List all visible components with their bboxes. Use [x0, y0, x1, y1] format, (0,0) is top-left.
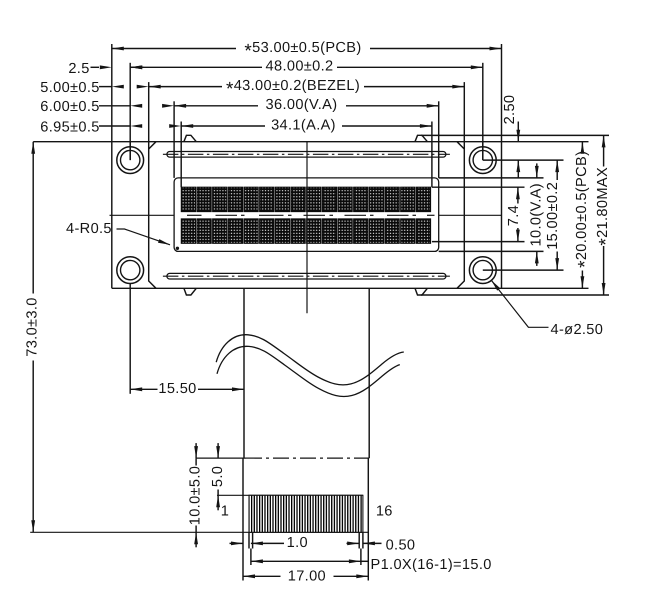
extension line bezel tab top (21.80MAX) — [421, 134, 609, 136]
extension ticks pin 16 edges — [358, 532, 360, 548]
dimension 5.0 arrows — [217, 443, 219, 458]
dimension 15.50 line — [130, 388, 157, 390]
svg-text:6.00±0.5: 6.00±0.5 — [40, 99, 100, 115]
dimension P1.0X(16-1)=15.0 line — [251, 560, 361, 562]
contact fingers hatched area — [249, 495, 363, 532]
dimension 5.00 arrows — [112, 85, 124, 89]
svg-text:5.00±0.5: 5.00±0.5 — [40, 80, 100, 96]
extension line V.A left edge (36.00) — [173, 101, 175, 178]
extension line bezel left edge (43.00) — [148, 82, 150, 149]
dimension 6.00 arrows — [130, 104, 142, 108]
vertical centreline of module — [306, 142, 308, 314]
extension line right hole centre (48.00) — [482, 63, 484, 160]
dimension *53.00 arrows — [112, 47, 124, 51]
dimension *21.80MAX line — [603, 135, 605, 166]
dimension P1.0 arrows — [251, 559, 263, 563]
dimension *43.00±0.2(BEZEL) text — [222, 79, 364, 94]
svg-text:P1.0X(16-1)=15.0: P1.0X(16-1)=15.0 — [371, 557, 492, 573]
flex break squiggle upper curve — [216, 335, 404, 385]
svg-text:15.00±0.2: 15.00±0.2 — [545, 182, 561, 250]
svg-text:10.0±5.0: 10.0±5.0 — [188, 466, 204, 526]
V.A window (display glass opening) — [174, 178, 439, 252]
svg-text:6.95±0.5: 6.95±0.5 — [40, 119, 100, 135]
horizontal centreline of module — [110, 214, 175, 216]
dimension 34.1 arrows — [181, 124, 193, 128]
dimension 17.00 arrows — [243, 574, 255, 578]
dimension 10.0±5.0 line — [195, 458, 197, 465]
svg-text:2.5: 2.5 — [68, 61, 89, 77]
extension line V.A right edge (36.00) — [438, 101, 440, 178]
extension tick pin 16 centre — [360, 549, 362, 566]
svg-text:1.0: 1.0 — [287, 535, 308, 551]
dimension *21.80MAX arrows — [602, 135, 606, 147]
svg-text:4-R0.5: 4-R0.5 — [66, 221, 112, 237]
dot-matrix character cells (16 columns x 2 rows) — [181, 187, 195, 211]
extension line top hole centre right (15.00) — [483, 159, 564, 161]
extension line PCB left edge (53.00) — [111, 44, 113, 142]
svg-text:1: 1 — [221, 504, 229, 520]
bezel tab bottom right — [415, 288, 427, 295]
dimension 34.1(A.A) text — [265, 119, 342, 134]
PCB top edge — [33, 141, 588, 143]
extension line PCB right edge (53.00) — [501, 44, 503, 142]
dimension 2.5 arrows — [100, 65, 112, 69]
R0.5 corner reference dot — [176, 247, 179, 250]
flex fold line solid extension — [196, 457, 246, 459]
bezel outline with chamfered corners — [149, 142, 465, 289]
dimension 7.4 line — [517, 187, 519, 203]
PCB left edge — [111, 142, 113, 289]
dimension 73.0±3.0 arrows — [31, 142, 35, 154]
dimension 48.00 arrows — [130, 65, 142, 69]
flex fold centreline — [246, 457, 369, 459]
extension line V.A top right (10.0) — [439, 177, 544, 179]
dimension *43.00 arrows — [149, 85, 161, 89]
dimension 48.00±0.2 text — [262, 60, 337, 75]
contact area top edge — [217, 494, 363, 496]
dimension 6.95±0.5 line — [99, 125, 130, 127]
dimension 5.00±0.5 line — [99, 86, 112, 88]
leader 4-R0.5 line — [117, 229, 171, 245]
dimension 6.95 arrows — [130, 124, 142, 128]
svg-text:17.00: 17.00 — [288, 568, 326, 584]
dimension 73.0±3.0 line — [32, 142, 34, 294]
dimension *20.00 arrows — [581, 142, 585, 154]
extension line hole centre down (15.50) — [129, 284, 131, 394]
bezel tab top left — [184, 135, 196, 141]
svg-text:7.4: 7.4 — [506, 205, 522, 226]
dimension 34.1(A.A) line — [181, 125, 432, 127]
extension line bottom hole centre right (15.00) — [483, 269, 564, 271]
flex tail left edge — [243, 288, 245, 458]
bezel slot top centreline — [163, 153, 450, 155]
mounting hole bottom left (ø2.50 pad) — [117, 257, 144, 284]
dimension 36.00 arrows — [174, 104, 186, 108]
dimension 15.00±0.2 arrows — [555, 160, 559, 172]
dimension 36.00(V.A) line — [174, 105, 439, 107]
extension ticks pin 1 edges — [248, 532, 250, 548]
bezel slot bottom centreline — [163, 275, 450, 277]
dimension 36.00(V.A) text — [258, 98, 346, 113]
dimension *20.00±0.5(PCB) line — [581, 142, 583, 148]
dimension 7.4 arrows — [516, 187, 520, 199]
dimension 6.00±0.5 line — [99, 105, 130, 107]
dimension 1.0 line — [265, 542, 285, 544]
svg-text:2.50: 2.50 — [502, 95, 518, 125]
svg-text:73.0±3.0: 73.0±3.0 — [25, 297, 41, 357]
svg-text:16: 16 — [376, 504, 393, 520]
flex end bottom edge — [30, 531, 368, 533]
extension line V.A bottom right (10.0) — [439, 250, 544, 252]
dimension *43.00±0.2(BEZEL) line — [149, 86, 465, 88]
extension tick pin 1 centre — [250, 549, 252, 566]
extension line bezel right edge (43.00) — [463, 82, 465, 149]
svg-text:15.50: 15.50 — [158, 381, 196, 397]
PCB right edge — [501, 142, 503, 289]
dimension 10.0(V.A) arrows — [536, 163, 538, 178]
extension line left hole centre (48.00/2.5) — [129, 63, 131, 160]
mounting hole top left (ø2.50 pad) — [117, 147, 144, 174]
bezel slot bottom — [167, 273, 446, 279]
extension line bezel tab bottom (21.80MAX) — [421, 294, 609, 296]
extension line A.A top right (7.4) — [432, 186, 525, 188]
flex break squiggle lower curve — [217, 346, 400, 396]
dimension 2.5 leader — [91, 66, 100, 68]
extension line A.A right edge (34.1) — [431, 122, 433, 188]
extension line into top-left hole centre — [129, 142, 131, 160]
mounting hole bottom right (ø2.50 pad) — [469, 257, 496, 284]
flex tail right edge — [368, 288, 370, 458]
dimension 15.50 arrows — [130, 387, 142, 391]
extension line into top-right hole centre — [482, 142, 484, 160]
dimension 10.0±5.0 arrows — [195, 443, 197, 458]
dimension 15.00±0.2 line — [556, 160, 558, 180]
svg-text:5.0: 5.0 — [210, 466, 226, 487]
dimension *53.00±0.5(PCB) line — [112, 48, 502, 50]
svg-text:4-ø2.50: 4-ø2.50 — [551, 322, 604, 338]
bezel tab top right — [415, 135, 427, 141]
leader 4-ø2.50 line — [491, 280, 548, 327]
dimension 5.0 line — [217, 490, 219, 496]
svg-text:0.50: 0.50 — [386, 537, 416, 553]
svg-text:10.0(V.A): 10.0(V.A) — [528, 183, 544, 246]
svg-text:34.1(A.A): 34.1(A.A) — [271, 117, 336, 133]
dimension *53.00±0.5(PCB) text — [236, 41, 370, 56]
dimension 17.00 line — [243, 575, 281, 577]
dimension 2.50 arrows — [516, 130, 520, 142]
svg-text:48.00±0.2: 48.00±0.2 — [266, 59, 334, 75]
bezel slot top — [167, 152, 446, 158]
dimension 1.0 arrows — [230, 542, 244, 544]
mounting hole top right (ø2.50 pad) — [469, 147, 496, 174]
dimension 48.00±0.2 line — [130, 66, 483, 68]
svg-text:36.00(V.A): 36.00(V.A) — [266, 97, 338, 113]
extension line A.A bottom right (7.4) — [432, 241, 525, 243]
bezel tab bottom left — [184, 288, 196, 295]
dimension 0.50 arrows — [347, 542, 360, 544]
extension line A.A left edge (34.1) — [180, 122, 182, 188]
PCB bottom edge — [112, 287, 589, 289]
